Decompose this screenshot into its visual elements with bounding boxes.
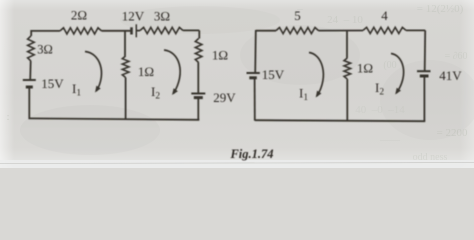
svg-text:1Ω: 1Ω: [138, 64, 154, 79]
svg-text:40 –0 –14: 40 –0 –14: [355, 104, 405, 116]
svg-text:1Ω: 1Ω: [357, 60, 373, 75]
svg-text:5: 5: [294, 8, 301, 23]
svg-text:15V: 15V: [262, 67, 285, 82]
svg-text:= 2200: = 2200: [437, 127, 468, 139]
svg-text:= 12(2½0): = 12(2½0): [417, 3, 464, 15]
svg-text:——: ——: [379, 135, 401, 146]
svg-text::: :: [6, 111, 9, 123]
svg-text:3Ω: 3Ω: [37, 42, 53, 56]
svg-text:1Ω: 1Ω: [212, 47, 228, 62]
svg-text:15V: 15V: [41, 76, 64, 91]
svg-text:12V: 12V: [122, 8, 145, 23]
svg-text:(00: (00: [383, 60, 396, 71]
svg-text:odd ness: odd ness: [413, 152, 448, 163]
svg-text:29V: 29V: [213, 90, 236, 105]
svg-text:Fig.1.74: Fig.1.74: [229, 147, 273, 161]
svg-text:= ∂60: = ∂60: [444, 51, 467, 62]
svg-text:4: 4: [381, 8, 388, 23]
svg-text:24 – 10: 24 – 10: [327, 14, 363, 26]
svg-text:2Ω: 2Ω: [71, 8, 87, 23]
svg-text:41V: 41V: [439, 68, 462, 83]
svg-text:3Ω: 3Ω: [154, 8, 170, 23]
